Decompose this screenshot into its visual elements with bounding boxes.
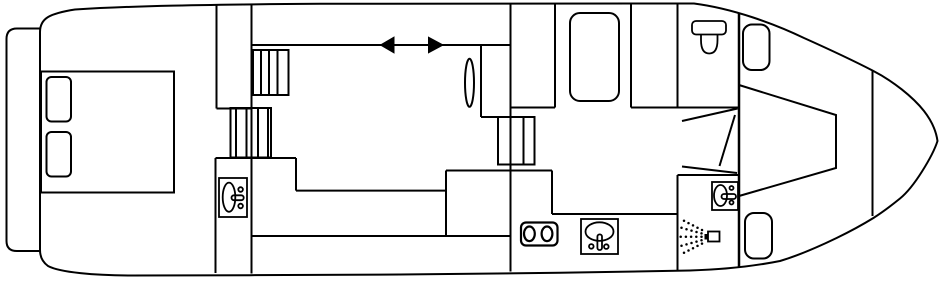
saloon long bench line y=236 xyxy=(252,235,511,237)
room A left wall x=481 xyxy=(480,45,482,117)
fwd cabin door swing upper xyxy=(682,109,738,122)
wall segment y=108.5 xyxy=(217,108,252,110)
pillow 1 xyxy=(47,77,72,122)
sink faucet capsule xyxy=(597,234,602,250)
shower nozzle xyxy=(705,234,709,240)
stove xyxy=(521,223,558,246)
sink knob right xyxy=(604,244,609,249)
wall aft-cabin bulkhead upper (x=216.5) xyxy=(216,5,218,109)
swim platform xyxy=(7,29,51,252)
toilet 1 bowl xyxy=(223,183,236,212)
saloon step wall x=296 xyxy=(295,158,297,191)
lower head door swing xyxy=(682,167,737,174)
wall y=107.5 from 631 to 739 xyxy=(631,107,739,109)
closet bottom wall y=107.5 xyxy=(511,107,556,109)
burner right xyxy=(542,227,553,242)
toilet 2 bowl xyxy=(714,185,727,206)
saloon/galley counter top y=170.5 xyxy=(446,170,552,172)
room A bottom wall y=117 xyxy=(481,116,511,118)
shower head xyxy=(708,232,720,242)
galley counter step x=552 xyxy=(551,171,553,215)
aft head compartment top wall (y=158) xyxy=(216,157,297,159)
saloon settee front line y=190.6 xyxy=(296,190,446,192)
door ellipse xyxy=(465,59,474,107)
fwd hatch upper xyxy=(743,25,770,71)
lower head top wall y=175 xyxy=(678,174,740,176)
toilet 3 tank xyxy=(692,21,726,35)
saloon berth rounded rect xyxy=(570,13,619,101)
V-berth xyxy=(739,85,836,196)
burner left xyxy=(524,227,535,242)
toilet 1 button lower xyxy=(238,204,243,209)
sink basin xyxy=(586,222,614,241)
stairs upper side deck xyxy=(253,50,289,95)
sink box xyxy=(581,219,618,254)
sink knob left xyxy=(589,244,594,249)
arrow left xyxy=(382,38,394,52)
toilet 1 box xyxy=(219,178,247,217)
wall galley longitudinal (x=510.5) xyxy=(510,5,512,272)
fwd hatch lower xyxy=(745,213,772,259)
toilet 2 button upper xyxy=(730,186,734,190)
toilet 2 button lower xyxy=(730,201,734,205)
closet right wall x=555 xyxy=(554,5,556,108)
wall fwd head left x=677.5 upper xyxy=(677,4,679,108)
wall aft head left (x=215.5) xyxy=(215,158,217,273)
bow bulkhead line x=872.5 xyxy=(872,71,874,216)
wall fwd bulkhead x=739 xyxy=(738,13,741,267)
arrow right xyxy=(429,38,442,52)
pillow 2 xyxy=(47,132,72,177)
wall main longitudinal (x=251.5) xyxy=(251,5,253,274)
wall x=631 xyxy=(630,4,632,108)
toilet 2 box xyxy=(712,182,738,210)
aft cabin double bed xyxy=(41,72,174,193)
toilet 2 tank capsule xyxy=(722,194,737,199)
lower head left wall x=677.5 xyxy=(677,175,679,271)
saloon box left edge x=446 xyxy=(445,171,447,237)
toilet 3 bowl xyxy=(701,35,718,54)
corridor wall line y=45 xyxy=(252,44,511,46)
stairs aft (down to cabin) xyxy=(231,108,272,158)
stairs galley xyxy=(498,117,535,165)
toilet 1 button upper xyxy=(238,187,243,192)
toilet 1 tank capsule xyxy=(232,195,244,200)
fwd cabin door leaf xyxy=(720,115,736,166)
shower spray dots xyxy=(679,220,703,255)
galley counter front y=214 xyxy=(552,213,678,215)
